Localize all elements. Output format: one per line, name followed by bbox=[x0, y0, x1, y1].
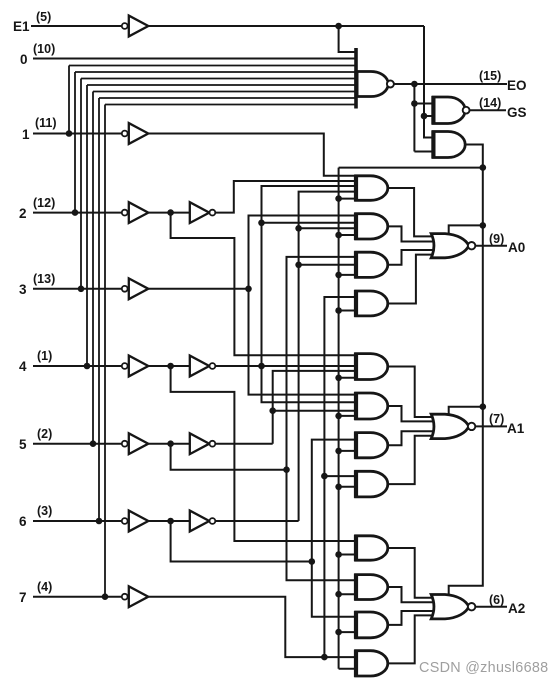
inverter input 6 second stage bbox=[190, 511, 210, 532]
node enable tap 10 bbox=[335, 591, 342, 598]
wire input 6 true rail down to A2g3 bbox=[312, 562, 356, 617]
wire input 2 bbox=[33, 212, 122, 214]
wire EO tap to enable AND bbox=[414, 151, 433, 153]
wire input 5 true rail down to A2g2 bbox=[287, 470, 356, 581]
node enable tap 9 bbox=[335, 551, 342, 558]
wire input 6 bbox=[33, 520, 122, 522]
wire input 6 to EO NAND bbox=[99, 97, 356, 99]
wire input 7 buffered detour bbox=[149, 597, 356, 657]
wire A2g2 output bbox=[388, 587, 439, 602]
wire input 4 to EO NAND bbox=[87, 84, 356, 86]
wire input 5 second inverter to rail bbox=[216, 443, 273, 445]
wire input 6 true rail up to A1g3 bbox=[312, 440, 356, 562]
wire enable rail bbox=[338, 168, 340, 669]
wire E1 rail down right side bbox=[424, 26, 433, 138]
wire input 4 rail tap to A0g2 bbox=[262, 222, 356, 224]
gate A0 NOR bubble bbox=[468, 242, 475, 249]
inverter input 6 first stage bbox=[122, 518, 128, 524]
wire A0 output bbox=[475, 245, 507, 247]
wire E1 inverter output to corner bbox=[149, 25, 424, 27]
wire input 7 bundle riser bbox=[104, 105, 106, 597]
node input 5 rail tap A1g2 bbox=[269, 407, 276, 414]
node input 5 true rail junction bbox=[283, 466, 290, 473]
wire input 3 buffered bbox=[149, 288, 249, 290]
node input 5 mid tap bbox=[167, 440, 174, 447]
node input 6 junction bbox=[96, 518, 103, 525]
and-gate A0 G1 bbox=[356, 176, 388, 201]
node input 6 rail tap A0g2 bbox=[295, 225, 302, 232]
wire input 5 rail up to A1g1 bbox=[273, 371, 356, 444]
inverter input 3 first stage bbox=[122, 286, 128, 292]
node enable tap 3 bbox=[335, 272, 342, 279]
svg-text:7: 7 bbox=[19, 590, 27, 605]
node input 4 rail tap A0g2 bbox=[258, 220, 265, 227]
wire EO output bbox=[394, 83, 507, 85]
wire input 2 inverter link bbox=[149, 212, 190, 214]
inverter input 4 second stage bbox=[190, 356, 210, 377]
node input 6 rail tap A0g3 bbox=[295, 262, 302, 269]
wire E1 input bbox=[31, 25, 122, 27]
gate enable AND body bbox=[433, 132, 465, 158]
node input 5 junction bbox=[90, 440, 97, 447]
svg-text:GS: GS bbox=[507, 105, 527, 120]
svg-text:(6): (6) bbox=[489, 593, 504, 607]
node enable tap 6 bbox=[335, 413, 342, 420]
svg-text:5: 5 bbox=[19, 437, 27, 452]
node enable tap 2 bbox=[335, 232, 342, 239]
inverter U1 (E1 buffer) bbox=[122, 23, 128, 29]
node input 4 junction bbox=[84, 363, 91, 370]
svg-text:(10): (10) bbox=[33, 42, 55, 56]
and-gate A1 G1 bbox=[356, 354, 388, 380]
nor-gate A0 NOR bbox=[431, 234, 469, 258]
node input 3 junction bbox=[78, 286, 85, 293]
svg-text:(15): (15) bbox=[479, 69, 501, 83]
wire input 1 bundle riser bbox=[68, 66, 70, 134]
wire enable tap 8 bbox=[339, 486, 356, 488]
node enable tap top bbox=[480, 164, 487, 171]
and-gate A2 G4 bbox=[356, 651, 388, 676]
wire A2 output bbox=[475, 606, 507, 608]
and-gate A1 G2 bbox=[356, 393, 388, 419]
wire enable AND output bbox=[449, 145, 483, 597]
svg-text:2: 2 bbox=[19, 206, 27, 221]
wire input 7 bbox=[33, 596, 122, 598]
and-gate A2 G2 bbox=[356, 575, 388, 600]
wire enable tap 10 bbox=[339, 593, 356, 595]
wire enable tap 9 bbox=[339, 554, 356, 556]
wire input 6 rail tap to A0g2 bbox=[299, 227, 356, 229]
node input 3 rail junction bbox=[245, 286, 252, 293]
wire input 4 rail down to A1g2 bbox=[262, 366, 356, 402]
svg-text:(14): (14) bbox=[479, 96, 501, 110]
wire input 6 rail tap to A0g3 bbox=[299, 264, 356, 266]
wire input 3 rail down to A1g2 bbox=[249, 289, 356, 395]
inverter input 4 first stage bbox=[122, 363, 128, 369]
svg-text:6: 6 bbox=[19, 514, 27, 529]
inverter input 2 second stage bbox=[190, 202, 210, 223]
svg-text:A2: A2 bbox=[508, 601, 525, 616]
gate GS NAND body bbox=[433, 97, 465, 124]
and-gate A0 G3 bbox=[356, 252, 388, 277]
wire enable tap 5 bbox=[339, 377, 356, 379]
nor-gate A2 NOR bbox=[431, 595, 469, 619]
wire input 4 rail up to A0g1 bbox=[262, 186, 356, 366]
svg-text:(11): (11) bbox=[35, 116, 57, 130]
node enable tap 7 bbox=[335, 448, 342, 455]
wire A0g4 output bbox=[388, 255, 438, 304]
wire input 3 bbox=[33, 288, 122, 290]
wire input 4 bundle riser bbox=[86, 85, 88, 366]
and-gate A2 G3 bbox=[356, 612, 388, 638]
wire input 5 to EO NAND bbox=[93, 91, 356, 93]
wire input 3 to EO NAND bbox=[81, 78, 356, 80]
svg-text:(7): (7) bbox=[489, 412, 504, 426]
wire input 4 inverter link bbox=[149, 365, 190, 367]
node input 4 rail junction bbox=[258, 363, 265, 370]
wire A1g1 output bbox=[388, 367, 438, 417]
wire input 2 to EO NAND bbox=[75, 71, 356, 73]
wire enable to A0 NOR bbox=[449, 225, 483, 235]
node E1 junction bbox=[335, 23, 342, 30]
node input 4 mid tap bbox=[167, 363, 174, 370]
wire input 2 second inverter to A0g1 bbox=[216, 181, 356, 213]
and-gate A0 G2 bbox=[356, 214, 388, 239]
wire A0g2 output bbox=[388, 226, 439, 241]
gate A2 NOR bubble bbox=[468, 603, 475, 610]
svg-text:E1: E1 bbox=[13, 19, 30, 34]
wire input 5 tap down bbox=[171, 444, 287, 470]
wire A2g1 output bbox=[388, 548, 438, 598]
svg-text:EO: EO bbox=[507, 78, 527, 93]
svg-text:(2): (2) bbox=[37, 427, 52, 441]
wire input 6 inverter link bbox=[149, 520, 190, 522]
node enable tap 1 bbox=[335, 195, 342, 202]
node input 7 rail tap A1g4 bbox=[321, 473, 328, 480]
wire enable tap 3 bbox=[339, 274, 356, 276]
inverter input 5 first stage bbox=[122, 441, 128, 447]
svg-text:(4): (4) bbox=[37, 580, 52, 594]
wire E1 branch to EO NAND bbox=[339, 26, 356, 52]
wire A0g3 output bbox=[388, 250, 439, 265]
and-gate A0 G4 bbox=[356, 291, 388, 316]
node enable tap 4 bbox=[335, 307, 342, 314]
node input 2 junction bbox=[72, 209, 79, 216]
wire GS output bbox=[470, 109, 507, 111]
svg-text:(3): (3) bbox=[37, 504, 52, 518]
nor-gate A1 NOR bbox=[431, 414, 469, 438]
wire enable tap 4 bbox=[339, 310, 356, 312]
node input 7 junction bbox=[102, 593, 109, 600]
wire input 4 second inverter to A1g1 bbox=[216, 365, 356, 367]
svg-text:(1): (1) bbox=[37, 349, 52, 363]
wire input 6 rail up to A0g1 bbox=[299, 192, 356, 521]
wire A2g4 output bbox=[388, 615, 438, 663]
wire EO tap to GS NAND bbox=[414, 103, 433, 105]
wire enable to A1 NOR bbox=[449, 407, 483, 416]
wire A1g2 output bbox=[388, 406, 439, 421]
wire input 1 buffered to A0 gate bbox=[149, 134, 356, 176]
wire A1g4 output bbox=[388, 436, 438, 484]
node enable tap A0 NOR bbox=[480, 222, 487, 229]
wire A2g3 output bbox=[388, 611, 439, 625]
wire input 7 to EO NAND bbox=[105, 104, 356, 106]
wire enable feed to AND column bbox=[339, 167, 483, 169]
gate EO NAND bubble bbox=[387, 81, 394, 88]
gate GS NAND bubble bbox=[463, 107, 470, 114]
wire A0g1 output bbox=[388, 188, 438, 236]
wire input 0 to EO NAND bbox=[33, 58, 356, 60]
wire input 1 to EO NAND bbox=[69, 65, 356, 67]
gate EO 9-input NAND input bar bbox=[354, 48, 358, 109]
wire input 4 tap down to A2g1 bbox=[171, 366, 356, 541]
inverter input 2 first stage bbox=[122, 210, 128, 216]
svg-text:3: 3 bbox=[19, 282, 27, 297]
wire input 2 bundle riser bbox=[74, 72, 76, 213]
node EO rail tap GS bbox=[411, 100, 418, 107]
wire input 6 second inverter to rail bbox=[216, 520, 299, 522]
wire input 5 true rail up to A0g3 bbox=[287, 257, 356, 470]
svg-text:1: 1 bbox=[22, 127, 30, 142]
node input 6 mid tap bbox=[167, 518, 174, 525]
wire input 3 bundle riser bbox=[80, 79, 82, 289]
node input 7 rail junction bbox=[321, 654, 328, 661]
wire input 6 tap down bbox=[171, 521, 312, 562]
inverter input 7 first stage bbox=[122, 594, 128, 600]
wire input 1 bbox=[33, 133, 122, 135]
node input 6 true rail junction bbox=[309, 558, 316, 565]
wire enable tap 1 bbox=[339, 198, 356, 200]
and-gate A2 G1 bbox=[356, 536, 388, 560]
node enable tap 11 bbox=[335, 629, 342, 636]
gate EO NAND body bbox=[356, 72, 388, 97]
wire enable tap 7 bbox=[339, 450, 356, 452]
node enable tap 5 bbox=[335, 375, 342, 382]
node EO output junction bbox=[411, 81, 418, 88]
wire A1 output bbox=[475, 425, 507, 427]
wire input 5 bbox=[33, 443, 122, 445]
svg-text:(9): (9) bbox=[489, 232, 504, 246]
svg-text:0: 0 bbox=[20, 52, 28, 67]
wire input 7 rail up to A0g4 bbox=[324, 297, 355, 657]
wire input 6 bundle riser bbox=[98, 98, 100, 521]
wire enable rail end to A2g4 bbox=[339, 668, 356, 670]
wire enable tap 6 bbox=[339, 415, 356, 417]
svg-text:(5): (5) bbox=[36, 10, 51, 24]
svg-text:(13): (13) bbox=[33, 272, 55, 286]
svg-text:A1: A1 bbox=[507, 421, 525, 436]
wire input 2 tap down to A1g1 bbox=[171, 213, 356, 356]
inverter input 1 first stage bbox=[122, 131, 128, 137]
wire input 5 bundle riser bbox=[92, 92, 94, 444]
wire A1g3 output bbox=[388, 431, 439, 445]
wire input 5 inverter link bbox=[149, 443, 190, 445]
wire enable tap 11 bbox=[339, 631, 356, 633]
and-gate A1 G4 bbox=[356, 471, 388, 497]
svg-text:4: 4 bbox=[19, 359, 27, 374]
node input 2 mid tap bbox=[167, 209, 174, 216]
wire input 4 bbox=[33, 365, 122, 367]
node input 1 junction bbox=[66, 130, 73, 137]
wire EO rail down bbox=[413, 84, 415, 152]
wire enable tap 2 bbox=[339, 234, 356, 236]
svg-text:(12): (12) bbox=[33, 196, 55, 210]
node enable tap A1 NOR bbox=[480, 403, 487, 410]
gate A1 NOR bubble bbox=[468, 423, 475, 430]
wire input 5 rail tap to A1g2 bbox=[273, 410, 356, 412]
inverter input 5 second stage bbox=[190, 433, 210, 454]
node enable tap 8 bbox=[335, 484, 342, 491]
wire E1 rail tap to GS NAND bbox=[424, 115, 433, 117]
and-gate A1 G3 bbox=[356, 433, 388, 458]
node E1 rail to GS gate bbox=[421, 113, 428, 120]
wire input 3 rail up to A0g2 bbox=[249, 216, 356, 289]
wire input 7 rail tap to A1g4 bbox=[324, 475, 355, 477]
svg-text:A0: A0 bbox=[508, 240, 525, 255]
svg-text:CSDN @zhusl6688: CSDN @zhusl6688 bbox=[419, 660, 549, 676]
